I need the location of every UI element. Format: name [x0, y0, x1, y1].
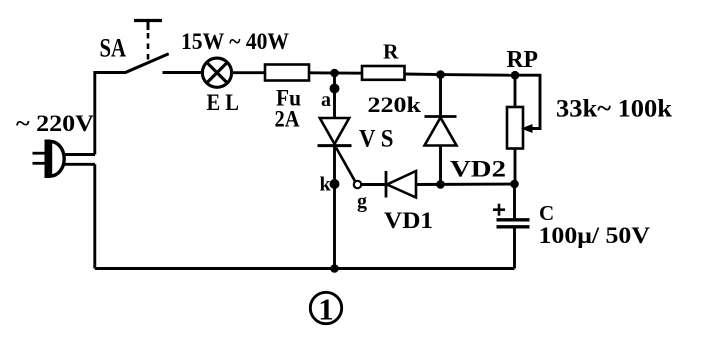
resistor R — [362, 66, 405, 80]
plug P (AC source) — [33, 140, 65, 179]
svg-text:V S: V S — [359, 126, 394, 153]
potentiometer RP — [507, 75, 540, 183]
svg-text:1: 1 — [318, 292, 334, 327]
svg-text:a: a — [321, 89, 331, 111]
fuse Fu — [265, 65, 309, 81]
wire g to VD1 — [361, 183, 386, 186]
svg-text:VD2: VD2 — [450, 157, 506, 183]
svg-text:2A: 2A — [275, 107, 300, 132]
wire switch to lamp — [163, 71, 204, 74]
svg-text:C: C — [539, 201, 554, 225]
diode VD2 — [425, 75, 457, 185]
junction dot VD2 top — [436, 70, 445, 79]
wire VD2 top to RP top — [441, 73, 516, 76]
wire left rail upper — [95, 73, 126, 155]
thyristor VS — [318, 73, 356, 269]
svg-text:VD1: VD1 — [384, 208, 433, 234]
wire cord top (plug to left rail) — [63, 153, 95, 156]
svg-text:100μ/ 50V: 100μ/ 50V — [539, 223, 651, 249]
svg-text:~ 220V: ~ 220V — [16, 111, 94, 137]
wire bottom rail — [95, 267, 515, 270]
wire fuse to resistor R — [309, 71, 362, 74]
diode VD1 — [386, 171, 416, 198]
node a dot — [330, 84, 340, 94]
svg-text:k: k — [320, 174, 332, 196]
wire left rail lower — [93, 164, 96, 268]
lamp EL — [202, 58, 231, 87]
junction dot bottom rail — [330, 264, 339, 273]
switch SA — [125, 21, 168, 73]
svg-text:R: R — [383, 40, 399, 64]
node g terminal circle — [354, 181, 361, 188]
junction dot VD2 bottom — [436, 180, 445, 189]
wire VD1 to cap junction — [416, 183, 515, 186]
node k dot — [330, 179, 340, 189]
junction dot cap top — [510, 180, 519, 189]
svg-text:33k~ 100k: 33k~ 100k — [556, 96, 672, 123]
svg-text:g: g — [357, 191, 367, 213]
svg-text:SA: SA — [100, 34, 127, 63]
junction node on top wire at VS anode — [330, 69, 339, 78]
wire resistor R to VD2 top — [405, 73, 441, 76]
svg-text:RP: RP — [507, 47, 539, 73]
wire lamp to fuse — [231, 71, 265, 74]
svg-text:15W ~ 40W: 15W ~ 40W — [181, 29, 289, 54]
capacitor C — [493, 184, 530, 269]
figure number 1 — [310, 292, 341, 327]
svg-text:E L: E L — [207, 90, 240, 115]
junction dot RP top — [511, 71, 520, 80]
wire cord bottom (plug to left rail) — [63, 163, 95, 166]
svg-text:220k: 220k — [368, 92, 422, 117]
